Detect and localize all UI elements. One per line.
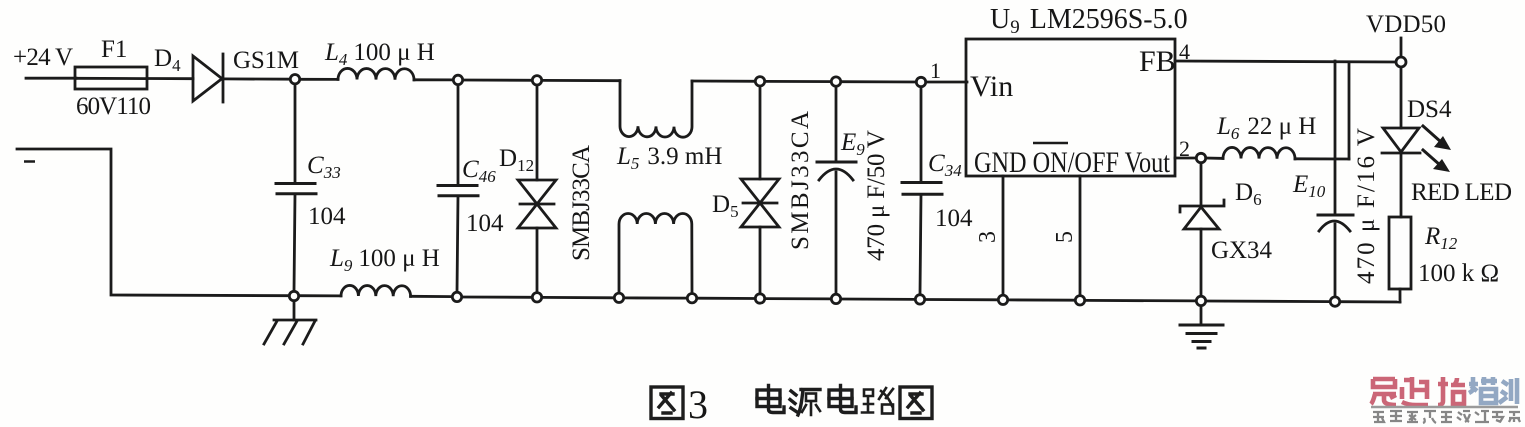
capacitor C34 — [902, 87, 942, 294]
caption char dian2 — [829, 386, 856, 413]
svg-text:60V110: 60V110 — [76, 93, 151, 120]
bottom rail pin5 to D6 — [1085, 299, 1196, 302]
svg-text:100 k Ω: 100 k Ω — [1418, 260, 1499, 287]
svg-text:F1: F1 — [101, 36, 127, 63]
svg-text:+24 V: +24 V — [13, 44, 73, 71]
svg-text:L9100 μ H: L9100 μ H — [329, 245, 440, 275]
node L4/C46 — [453, 75, 462, 84]
watermark small gray text row — [1373, 411, 1520, 423]
wire L4 to node — [414, 78, 458, 81]
inductor L5 bottom winding — [619, 214, 692, 294]
watermark char xun (blue) — [1499, 378, 1517, 404]
node E9 top — [831, 77, 840, 86]
node D6 bottom — [1196, 296, 1205, 305]
wire D4 to node — [223, 78, 295, 81]
FB wire pin4 — [1175, 61, 1401, 62]
wire L5 to D5 node — [692, 80, 760, 83]
svg-text:104: 104 — [308, 203, 346, 230]
fuse F1 — [75, 67, 147, 89]
wire D5 node to E9 node — [765, 80, 836, 83]
caption char lu — [862, 388, 893, 414]
svg-text:L4100 μ H: L4100 μ H — [324, 39, 435, 69]
svg-text:C34: C34 — [928, 150, 962, 180]
wire D12 node to L5 — [542, 79, 620, 82]
node D5 top — [755, 77, 764, 86]
svg-text:U9LM2596S-5.0: U9LM2596S-5.0 — [990, 4, 1188, 38]
LED DS4 — [1382, 67, 1420, 217]
svg-text:D6: D6 — [1235, 179, 1262, 209]
node C34 top — [916, 77, 925, 86]
watermark char pei (blue) — [1469, 377, 1497, 403]
svg-text:2: 2 — [1179, 136, 1190, 161]
diode D6 (GX34 schottky) — [1180, 163, 1224, 296]
svg-text:RED LED: RED LED — [1411, 179, 1512, 206]
node C34 bottom — [915, 295, 924, 304]
wire +24V input to fuse — [26, 77, 76, 80]
node pin5 bottom — [1075, 296, 1084, 305]
node L5 bottom-right — [687, 294, 696, 303]
watermark char tuo (red) — [1438, 377, 1465, 405]
bottom rail D12 to L5 — [542, 296, 614, 299]
bottom rail D5 to E9 — [765, 297, 831, 300]
svg-text:Vin: Vin — [970, 70, 1013, 103]
wire node 1 to U9 Vin — [926, 81, 967, 84]
svg-text:R12: R12 — [1424, 223, 1458, 253]
svg-text:SMBJ33CA: SMBJ33CA — [568, 145, 595, 261]
node GS1M output — [290, 75, 299, 84]
TVS diode D5 — [741, 86, 779, 293]
svg-text:4: 4 — [1179, 39, 1190, 64]
left return wire — [17, 149, 289, 296]
svg-text:3: 3 — [688, 382, 708, 427]
svg-text:GS1M: GS1M — [233, 47, 299, 74]
diode D4 — [193, 54, 223, 102]
electrolytic capacitor E10 — [1318, 215, 1353, 296]
svg-text:104: 104 — [935, 205, 973, 232]
caption char tu2 — [900, 387, 932, 419]
svg-text:D12: D12 — [499, 145, 534, 175]
overline for ON — [1033, 142, 1068, 145]
svg-text:C46: C46 — [462, 156, 496, 186]
LED arrows — [1423, 126, 1451, 172]
bottom rail C46 to D12 — [462, 296, 532, 299]
inductor L5 top winding — [620, 81, 692, 137]
node Vout — [1196, 153, 1205, 162]
svg-text:470 μ F/16 V: 470 μ F/16 V — [1353, 128, 1380, 284]
wire node to D12 node — [463, 79, 537, 82]
pin 5 wire — [1079, 176, 1082, 295]
node D12 top — [532, 76, 541, 85]
electrolytic capacitor E9 — [817, 87, 856, 293]
svg-text:DS4: DS4 — [1407, 96, 1452, 123]
svg-text:E10: E10 — [1292, 171, 1326, 201]
svg-text:1: 1 — [930, 58, 941, 83]
caption: 图 3 电源电路图 — [651, 382, 932, 427]
caption char tu1 — [651, 387, 683, 419]
inductor L6 — [1223, 147, 1295, 158]
svg-text:FB: FB — [1139, 45, 1176, 78]
pin 3 wire — [1002, 176, 1005, 294]
resistor R12 — [1389, 217, 1411, 302]
watermark logo — [1371, 377, 1520, 423]
capacitor C46 — [438, 85, 478, 292]
node C33 bottom — [289, 291, 298, 300]
TVS diode D12 — [518, 85, 556, 292]
svg-text:GX34: GX34 — [1211, 237, 1273, 264]
node E10 bottom — [1330, 297, 1339, 306]
watermark char di (red) — [1402, 377, 1428, 405]
wire node to L4 — [300, 78, 338, 81]
watermark char yi (red) — [1371, 379, 1396, 405]
inductor L9 — [299, 285, 452, 296]
op-amp U9 box LM2596S-5.0 — [966, 39, 1175, 176]
caption char dian1 — [757, 386, 784, 413]
Vout wire pin2 — [1175, 157, 1196, 160]
svg-text:3: 3 — [975, 231, 1001, 243]
bottom rail pin3 to pin5 — [1008, 298, 1075, 301]
svg-text:D4: D4 — [154, 45, 181, 75]
node VDD50 — [1396, 57, 1406, 67]
label minus tick — [24, 160, 35, 163]
wire fuse to D4 — [147, 77, 193, 80]
wire E9 node to C34 node — [841, 80, 921, 83]
bottom rail C34 to pin3 — [925, 298, 998, 301]
ground (rake style) at C33 — [264, 301, 316, 344]
node D12 bottom — [532, 293, 541, 302]
bottom rail under L5 — [624, 296, 687, 299]
svg-text:D5: D5 — [712, 191, 739, 221]
svg-text:L53.9 mH: L53.9 mH — [616, 143, 722, 173]
node L5 bottom-left — [614, 293, 623, 302]
bottom rail L5 to D5 — [697, 297, 755, 300]
bottom rail D6 to E10 — [1206, 300, 1330, 303]
bottom rail E10 to R12 — [1340, 300, 1400, 303]
node pin3 bottom — [998, 295, 1007, 304]
svg-text:E9: E9 — [840, 129, 865, 159]
wire VDD drop vertical — [1348, 62, 1351, 159]
watermark divider line — [1371, 406, 1518, 409]
svg-text:VDD50: VDD50 — [1366, 11, 1446, 38]
node C46 bottom — [452, 292, 461, 301]
svg-text:5: 5 — [1052, 231, 1078, 243]
wire node to L6 — [1206, 157, 1223, 160]
inductor L4 — [338, 68, 414, 79]
svg-text:104: 104 — [466, 210, 504, 237]
caption char yuan — [790, 390, 820, 416]
svg-text:L622 μ H: L622 μ H — [1216, 113, 1316, 143]
svg-text:C33: C33 — [307, 152, 341, 182]
ground (earth style) at D6 — [1180, 306, 1223, 348]
node D5 bottom — [755, 294, 764, 303]
capacitor C33 — [276, 84, 316, 291]
svg-text:GND ON/OFF Vout: GND ON/OFF Vout — [974, 146, 1171, 179]
svg-text:SMBJ33CA: SMBJ33CA — [787, 111, 814, 250]
wire L6 to VDD drop — [1295, 157, 1349, 160]
svg-text:470 μ F/50 V: 470 μ F/50 V — [863, 130, 890, 261]
node E9 bottom — [831, 294, 840, 303]
wire FB drop / E10 branch vertical — [1334, 61, 1337, 215]
bottom rail E9 to C34 — [841, 298, 915, 301]
wire VDD50 stub — [1400, 38, 1403, 57]
